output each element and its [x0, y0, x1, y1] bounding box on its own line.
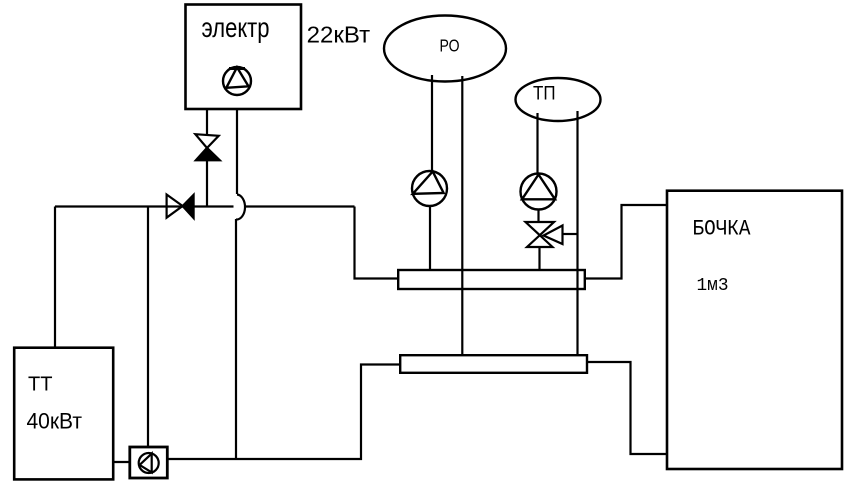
- wire: 3-way valve down to upper manifold: [538, 247, 540, 271]
- svg-text:40кВт: 40кВт: [27, 409, 83, 434]
- lower manifold: [400, 355, 587, 373]
- wire: down to upper manifold left: [355, 207, 399, 279]
- wire: ТТ box to pump box: [113, 461, 130, 463]
- wire: long vertical from jump down to bottom return wire: [235, 219, 237, 459]
- upper manifold: [398, 270, 585, 289]
- wire: электр left pipe lower (valve to top wire): [206, 161, 208, 207]
- svg-text:электр: электр: [202, 12, 270, 43]
- wire: РО left pipe (ellipse to pump): [431, 75, 433, 172]
- wire: top wire continuation right of jump: [245, 205, 355, 207]
- РО expansion tank ellipse: [384, 16, 506, 82]
- wire: top horizontal wire (left riser to jump): [55, 205, 234, 207]
- ТП ellipse: [516, 78, 601, 121]
- wire: bottom return (pump box to lower manifold): [167, 365, 400, 460]
- wire: middle riser down to pump box: [147, 207, 149, 448]
- wire: ТП left pipe (ellipse to pump): [536, 113, 538, 174]
- wire: ТП pump to 3-way valve: [537, 210, 539, 224]
- wire: электр right pipe (box to jump): [236, 109, 238, 194]
- svg-text:БОЧКА: БОЧКА: [693, 217, 752, 242]
- pump P2 under РО: [412, 171, 447, 206]
- pump inside электр box: [223, 67, 251, 95]
- svg-text:ТТ: ТТ: [28, 373, 53, 395]
- check valve V2 on top wire: [167, 195, 183, 218]
- wire: valve stub to ТП right pipe: [563, 233, 578, 235]
- valve V1 (half filled) on электр left pipe: [195, 134, 218, 148]
- wire: ТП right pipe down to lower manifold: [576, 111, 578, 356]
- svg-text:1м3: 1м3: [697, 276, 729, 296]
- wire: электр left pipe upper (box to valve): [206, 109, 208, 135]
- boiler электр box: [186, 5, 302, 110]
- wire: lower manifold right to БОЧКА bottom connection: [587, 362, 667, 454]
- wire: upper manifold right to БОЧКА top connection: [585, 205, 667, 279]
- wire: РО left pipe (pump to upper manifold): [429, 206, 431, 270]
- svg-text:ТП: ТП: [533, 84, 556, 105]
- БОЧКА tank box: [667, 191, 842, 469]
- svg-text:РО: РО: [440, 36, 460, 56]
- three-way mixing valve: [526, 222, 563, 247]
- pump box P1: [130, 447, 168, 478]
- pump P3 under ТП: [521, 174, 557, 210]
- wire jump arc over top wire: [236, 195, 245, 220]
- wire: left riser down to ТТ box: [54, 207, 56, 349]
- ТТ boiler box: [14, 348, 113, 480]
- pump P1 symbol: [139, 453, 159, 473]
- wire: РО right pipe down to lower manifold: [461, 76, 463, 356]
- svg-text:22кВт: 22кВт: [307, 22, 371, 48]
